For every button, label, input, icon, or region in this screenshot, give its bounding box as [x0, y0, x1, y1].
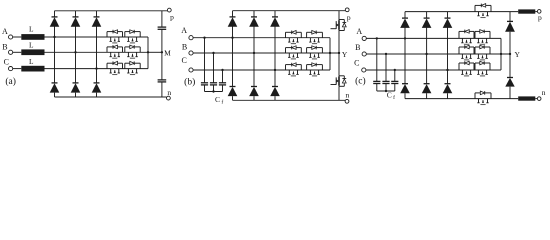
wire (a): [161, 11, 163, 27]
wire (c): [535, 98, 537, 100]
bus (b): [329, 38, 331, 70]
label n (c): [542, 88, 546, 97]
diode top (a): [92, 17, 102, 27]
node leg (c): [446, 69, 448, 71]
svg-text:n: n: [542, 88, 546, 97]
label B (b): [182, 43, 187, 52]
wire leg (a): [75, 26, 77, 83]
label C (c): [354, 59, 359, 68]
wire (c): [447, 93, 449, 98]
wire (a): [96, 11, 98, 17]
wire phase C (b): [193, 69, 330, 71]
diode bottom (b): [249, 87, 259, 97]
cap bus (c): [377, 90, 395, 92]
wire leg (b): [253, 26, 255, 86]
wire cap tap (c): [394, 70, 396, 81]
wire phase A (c): [366, 37, 501, 39]
node B-leg2 (a): [74, 51, 76, 53]
diode top (b): [270, 17, 280, 27]
wire cap tap (c): [385, 54, 387, 81]
label Y (c): [514, 50, 520, 59]
wire (c): [376, 84, 378, 92]
svg-text:Y: Y: [514, 50, 520, 59]
wire (a): [161, 29, 163, 80]
svg-text:Y: Y: [342, 50, 348, 59]
wire M (a): [148, 51, 162, 53]
wire (b): [253, 96, 255, 100]
wire phase B (b): [193, 52, 339, 54]
switch cell right (b): [307, 46, 323, 59]
label B (a): [2, 42, 7, 51]
bottom rail (a): [55, 96, 167, 98]
svg-text:C: C: [387, 90, 392, 99]
terminal n (b): [345, 99, 349, 103]
svg-text:p: p: [538, 13, 542, 22]
node leg (c): [425, 53, 427, 55]
svg-text:f: f: [393, 94, 395, 101]
switch cell left (b): [286, 63, 302, 76]
wire phase A (a): [45, 36, 149, 38]
switch cell right (a): [125, 30, 140, 43]
wire (a): [161, 82, 163, 97]
terminal p (c): [537, 10, 541, 14]
switch cell left (b): [286, 46, 302, 59]
wire cap tap (c): [376, 38, 378, 81]
svg-text:L: L: [29, 41, 34, 50]
wire (b): [338, 31, 340, 76]
node Y (b): [338, 52, 340, 54]
wire (b): [338, 86, 340, 100]
diode bottom (c): [422, 84, 432, 94]
series switch bottom (c): [475, 91, 491, 104]
terminal A (c): [362, 36, 366, 40]
wire leg (c): [404, 28, 406, 84]
wire (c): [447, 12, 449, 19]
wire leg (a): [96, 26, 98, 83]
diode bottom (a): [50, 83, 60, 93]
label Cf (c): [387, 90, 395, 101]
svg-text:n: n: [346, 91, 350, 100]
node Y (c): [509, 53, 511, 55]
node M (a): [161, 51, 163, 53]
wire (c): [509, 54, 511, 78]
terminal C (c): [362, 68, 366, 72]
diode top (b): [228, 17, 238, 27]
terminal B (b): [189, 51, 193, 55]
wire (b): [232, 11, 234, 17]
wire (c): [404, 93, 406, 98]
diode freewheel lower (c): [505, 78, 514, 87]
wire (c): [509, 87, 511, 99]
switch cell right (a): [125, 61, 140, 74]
wire (a): [75, 11, 77, 17]
label Y (b): [342, 50, 348, 59]
label C (a): [4, 57, 9, 66]
label (b): [184, 76, 195, 87]
svg-text:L: L: [29, 57, 34, 66]
wire (c): [426, 93, 428, 98]
wire (c): [509, 32, 511, 54]
label A (a): [2, 27, 8, 36]
svg-text:L: L: [29, 24, 34, 33]
label L (a): [29, 57, 34, 66]
wire leg (c): [447, 28, 449, 84]
diode bottom (b): [228, 87, 238, 97]
switch cell right (b): [307, 63, 323, 76]
diode bottom (a): [71, 83, 81, 93]
label L (a): [29, 41, 34, 50]
svg-text:C: C: [215, 95, 220, 104]
filter capacitor Cf (c): [373, 81, 380, 83]
node bus-B (a): [147, 51, 149, 53]
terminal C (b): [189, 68, 193, 72]
diode top (b): [249, 17, 259, 27]
wire leg (b): [274, 26, 276, 86]
diode top (c): [422, 18, 432, 28]
diode top (c): [400, 18, 410, 28]
svg-text:C: C: [4, 57, 9, 66]
diode top (c): [443, 18, 453, 28]
wire (a): [54, 93, 56, 97]
label p (b): [347, 13, 351, 22]
top rail (b): [233, 10, 346, 12]
switch cell left (a): [107, 61, 123, 74]
node tap (b): [212, 52, 214, 54]
svg-text:A: A: [181, 26, 187, 35]
diode bottom (b): [270, 87, 280, 97]
label A (b): [181, 26, 187, 35]
wire phase in (a): [13, 51, 22, 53]
svg-text:(a): (a): [5, 76, 16, 87]
label L (a): [29, 24, 34, 33]
node cap bus (c): [385, 90, 387, 92]
wire (b): [232, 96, 234, 100]
svg-text:p: p: [347, 13, 351, 22]
wire phase C (a): [45, 68, 149, 70]
svg-text:B: B: [182, 43, 187, 52]
node bus-Y (c): [500, 53, 502, 55]
wire (a): [75, 93, 77, 97]
terminal B (a): [9, 50, 13, 54]
svg-text:f: f: [221, 99, 223, 106]
label p (c): [538, 13, 542, 22]
wire (b): [338, 11, 340, 20]
label A (c): [356, 27, 362, 36]
series switch top (c): [475, 4, 491, 18]
node leg (c): [404, 37, 406, 39]
wire (c): [385, 84, 387, 92]
node cap bus (b): [212, 90, 214, 92]
switch cell left (a): [107, 30, 123, 43]
filter capacitor Cf (b): [219, 83, 226, 85]
terminal p (a): [167, 8, 171, 12]
node tap (c): [385, 53, 387, 55]
node tap (c): [376, 37, 378, 39]
mosfet upper (b): [331, 20, 347, 31]
wire (c): [426, 12, 428, 19]
switch cell left (c): [459, 30, 474, 45]
terminal A (a): [9, 35, 13, 39]
wire (b): [274, 11, 276, 17]
terminal C (a): [9, 67, 13, 71]
wire cap tap (b): [222, 70, 224, 83]
bottom rail (c): [405, 98, 518, 100]
label (c): [355, 75, 366, 86]
diode top (a): [71, 17, 81, 27]
svg-text:(b): (b): [184, 76, 195, 87]
switch cell right (c): [475, 61, 490, 76]
wire leg (b): [232, 26, 234, 86]
bus (c): [500, 38, 502, 70]
wire (c): [394, 84, 396, 92]
inductor L (a): [21, 34, 44, 40]
label M (a): [164, 49, 171, 58]
wire (b): [213, 85, 215, 92]
svg-text:A: A: [2, 27, 8, 36]
top rail (a): [55, 10, 168, 12]
label n (b): [346, 91, 350, 100]
svg-text:B: B: [355, 43, 360, 52]
label n (a): [167, 88, 171, 97]
inductor bottom (c): [518, 96, 535, 100]
node A-leg1 (a): [53, 36, 55, 38]
svg-text:A: A: [356, 27, 362, 36]
svg-text:(c): (c): [355, 75, 366, 86]
svg-text:p: p: [170, 12, 174, 21]
wire phase B (a): [45, 51, 149, 53]
switch cell left (b): [286, 31, 302, 44]
switch cell right (c): [475, 30, 490, 45]
switch cell left (c): [459, 45, 474, 60]
wire cap tap (b): [213, 53, 215, 83]
capacitor top (a): [158, 27, 167, 29]
svg-text:n: n: [167, 88, 171, 97]
diode bottom (c): [443, 84, 453, 94]
wire (a): [96, 93, 98, 97]
node leg (b): [253, 52, 255, 54]
inductor top (c): [518, 9, 535, 13]
wire (b): [253, 11, 255, 17]
node tap (c): [394, 69, 396, 71]
wire phase A (b): [193, 37, 330, 39]
wire phase in (a): [13, 68, 22, 70]
node bus-Y (b): [329, 52, 331, 54]
switch cell left (c): [459, 61, 474, 76]
switch cell right (a): [125, 45, 140, 58]
label C (b): [182, 56, 187, 65]
svg-text:C: C: [354, 59, 359, 68]
switch cell left (a): [107, 45, 123, 58]
terminal A (b): [189, 36, 193, 40]
terminal n (a): [167, 96, 171, 100]
wire (b): [204, 85, 206, 92]
label Cf (b): [215, 95, 223, 106]
cap bus (b): [205, 91, 223, 93]
wire leg (c): [426, 28, 428, 84]
capacitor bottom (a): [158, 80, 167, 82]
filter capacitor Cf (c): [391, 81, 398, 83]
filter capacitor Cf (b): [210, 83, 217, 85]
wire freewheel (c): [509, 12, 511, 22]
label p (a): [170, 12, 174, 21]
top rail (c): [405, 11, 518, 13]
label (a): [5, 76, 16, 87]
svg-text:C: C: [182, 56, 187, 65]
wire (b): [274, 96, 276, 100]
terminal p (b): [345, 8, 349, 12]
diode bottom (c): [400, 84, 410, 94]
inductor L (a): [21, 49, 44, 55]
node C-leg3 (a): [95, 67, 97, 69]
terminal B (c): [362, 52, 366, 56]
wire cap tap (b): [204, 38, 206, 83]
wire leg (a): [54, 26, 56, 83]
svg-text:M: M: [164, 49, 171, 58]
filter capacitor Cf (b): [201, 83, 208, 85]
diode top (a): [50, 17, 60, 27]
wire (b): [222, 85, 224, 92]
node leg (b): [274, 69, 276, 71]
diode freewheel upper (c): [505, 21, 515, 31]
mosfet lower (b): [331, 76, 347, 87]
switch cell right (c): [475, 45, 490, 60]
bottom rail (b): [233, 99, 346, 101]
wire (c): [404, 12, 406, 19]
wire phase B (c): [366, 53, 510, 55]
label B (c): [355, 43, 360, 52]
bus (a): [147, 37, 149, 69]
node tap (b): [221, 69, 223, 71]
svg-text:B: B: [2, 42, 7, 51]
node leg (b): [231, 37, 233, 39]
diode bottom (a): [92, 83, 102, 93]
switch cell right (b): [307, 31, 323, 44]
wire (c): [535, 11, 537, 13]
wire phase in (a): [13, 36, 22, 38]
wire (a): [54, 11, 56, 17]
filter capacitor Cf (c): [382, 81, 389, 83]
wire phase C (c): [366, 69, 501, 71]
terminal n (c): [537, 97, 541, 101]
inductor L (a): [21, 66, 44, 72]
node tap (b): [203, 37, 205, 39]
